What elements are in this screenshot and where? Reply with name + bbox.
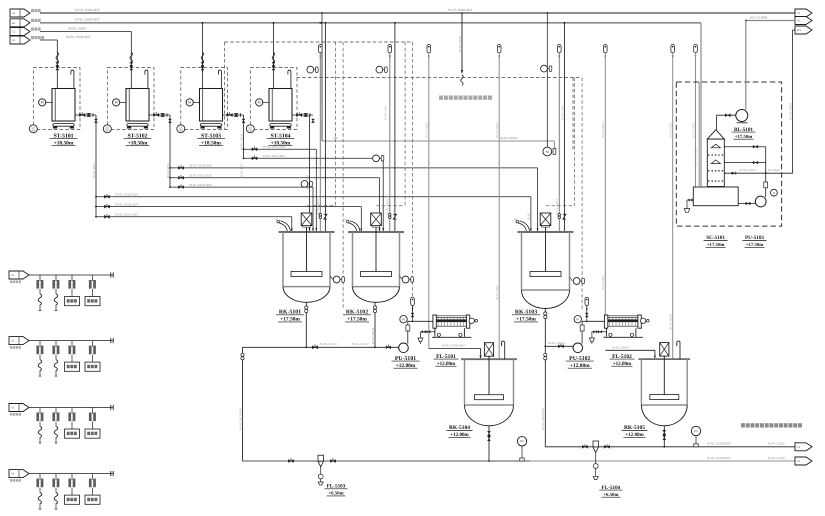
svg-text:0.5-WRE: 0.5-WRE [768, 168, 779, 172]
utility riser U4 [671, 45, 675, 53]
wire drain ST-5101 [95, 115, 97, 217]
signal dashed jog RK-5103 [574, 78, 576, 206]
pump PU-5102 [573, 343, 583, 353]
off-page connector flag IN2 [10, 19, 30, 27]
reactor outlet RK-5101 [305, 302, 307, 347]
svg-text:50-VT-1502: 50-VT-1502 [321, 105, 325, 120]
svg-text:V2: V2 [797, 20, 801, 23]
instrument bubble FI1 [307, 66, 314, 73]
svg-text:PI: PI [520, 440, 523, 444]
vent pipe ST-5102 [145, 70, 148, 88]
utility drop g2d1 [39, 341, 41, 347]
utility drop g2d2 [55, 341, 57, 347]
utility header group 1 [9, 271, 29, 279]
svg-text:50-RL-15016: 50-RL-15016 [320, 342, 337, 346]
svg-text:PI: PI [402, 317, 405, 321]
off-page connector flag IN1 [10, 9, 30, 17]
valve outlet ST-5101 [75, 114, 96, 116]
wire feed drop to ST-5102 [130, 32, 132, 89]
inline filter FL-5103 [318, 455, 324, 461]
svg-text:50-PL-15032: 50-PL-15032 [669, 313, 673, 330]
reactor RK-5105 [641, 359, 687, 426]
svg-text:40-NG-15020: 40-NG-15020 [500, 136, 518, 140]
instrument LS4 [246, 125, 254, 133]
wire solvent-header line2 [40, 22, 701, 24]
wire vent riser RK-5101 [324, 23, 326, 232]
svg-text:W1: W1 [797, 29, 801, 32]
instrument N1 [771, 189, 778, 196]
filter press FL-5102 [604, 315, 607, 328]
agitator motor RK-5101 [301, 213, 312, 226]
vent pipe ST-5101 [71, 70, 74, 88]
valve V201 [130, 62, 133, 66]
wire sump drain [687, 199, 693, 201]
svg-text:25-RL-15010-B1F: 25-RL-15010-B1F [115, 192, 138, 196]
utility riser U1 [427, 45, 431, 53]
instrument bubble FI5 [546, 13, 548, 147]
wire nitrogen line [321, 13, 323, 141]
reactor RK-5104 [465, 359, 514, 426]
svg-text:25-SW-15034: 25-SW-15034 [788, 102, 792, 120]
wire line2 drop to scrubber [700, 23, 702, 187]
wire drain ST-5104 [309, 115, 311, 232]
svg-text:152: 152 [105, 130, 110, 133]
wire RK-5105 drain [663, 426, 665, 447]
instrument LS3 [177, 125, 185, 133]
press stand FL-5102 [605, 328, 607, 337]
svg-text:151: 151 [31, 130, 36, 133]
utility riser U2 [497, 45, 501, 53]
agitator impeller RK-5103 [530, 272, 561, 277]
signal dashed jog RK-5101 [335, 42, 337, 206]
wire RK-5103 drain to bottom [544, 346, 546, 447]
scrubber sump tank [693, 187, 738, 206]
svg-text:25-SW-15027: 25-SW-15027 [739, 168, 757, 172]
svg-text:50-RL-15018: 50-RL-15018 [371, 327, 375, 344]
svg-text:25-PL-15012: 25-PL-15012 [555, 198, 559, 215]
svg-text:A1: A1 [12, 12, 16, 15]
svg-text:25-RL-15031: 25-RL-15031 [239, 133, 243, 150]
utility drop g4d3 [71, 474, 73, 480]
svg-text:M: M [41, 101, 44, 105]
utility drop g3d4 [92, 408, 94, 414]
instrument bubble FI3 [301, 181, 308, 188]
svg-text:25-RL-15011-B1F: 25-RL-15011-B1F [263, 154, 286, 158]
valve outlet ST-5102 [149, 114, 170, 116]
wire drop to reactor flange [379, 178, 381, 232]
svg-text:D1: D1 [12, 39, 16, 42]
inlet lance [348, 221, 360, 232]
agitator impeller RK-5104 [475, 395, 504, 400]
svg-text:PI: PI [576, 317, 579, 321]
valve V401 [272, 62, 275, 66]
svg-text:50-RL: 50-RL [528, 212, 531, 220]
wire FL-5101 discharge to RK-5104 [429, 348, 481, 350]
wire column to blower [716, 115, 718, 130]
off-page connector flag IN3 [10, 28, 30, 36]
utility riser U5 [694, 45, 698, 53]
utility drop g1d3 [71, 275, 73, 281]
utility drop g4d2 [55, 474, 57, 480]
inlet lance [278, 221, 290, 232]
press handwheel FL-5101 [470, 320, 476, 322]
enclosure dashed box ST-5103 [181, 68, 228, 130]
svg-text:M: M [258, 101, 261, 105]
wire branch ST-5102 b2 [169, 177, 171, 179]
utility drop g3d2 [55, 408, 57, 414]
utility header group 4 [9, 470, 29, 478]
svg-text:50-RL-15005-B1F: 50-RL-15005-B1F [66, 35, 91, 39]
off-page connector flag OUT3 [795, 26, 812, 34]
svg-text:50-VT-1503: 50-VT-1503 [560, 105, 564, 120]
valve outlet ST-5104 [292, 114, 313, 116]
wire drop to reactor flange [312, 187, 314, 232]
reactor outlet RK-5102 [374, 302, 376, 347]
wire feed drop to ST-5104 [273, 23, 275, 89]
svg-text:50-RL-1501: 50-RL-1501 [166, 163, 170, 178]
svg-text:U4: U4 [11, 473, 15, 476]
utility drop g1d4 [92, 275, 94, 281]
svg-text:50-RL-15026: 50-RL-15026 [768, 442, 785, 446]
utility stub PU-5102 [585, 297, 589, 305]
svg-text:M: M [188, 101, 191, 105]
wire feed-header line3 [40, 31, 131, 33]
off-page connector flag OUT5 [795, 457, 812, 465]
pressure gauge PG5 [691, 426, 700, 435]
wire RK-5104 drain [488, 426, 490, 461]
svg-text:B1: B1 [12, 22, 16, 25]
svg-text:M: M [115, 101, 118, 105]
wire vent riser RK-5102 [394, 23, 396, 232]
utility dip riser RK-5102 [388, 45, 392, 53]
scrubber column SC-5101 [707, 130, 724, 139]
wire suction line PU-5101 [243, 346, 399, 348]
wire branch ST-5102 b3 [169, 186, 171, 188]
wire inlet corner [530, 197, 532, 232]
pump PU-5101 [399, 343, 409, 353]
wire scrubber water supply [792, 30, 794, 174]
svg-text:50-RL-15019-B1F: 50-RL-15019-B1F [238, 407, 242, 430]
dip valves RK-5103 [558, 213, 561, 216]
svg-text:25-RL-15012-B1F: 25-RL-15012-B1F [115, 213, 138, 217]
svg-text:50-RL-15026(B1F): 50-RL-15026(B1F) [707, 442, 731, 446]
off-page connector flag OUT2 [795, 17, 812, 25]
svg-text:50-RL-15024: 50-RL-15024 [612, 345, 629, 349]
svg-text:25-PL-15011: 25-PL-15011 [386, 199, 390, 215]
svg-text:P2: P2 [797, 460, 801, 463]
pump PU-5103 [755, 196, 766, 207]
reactor RK-5102 [353, 232, 400, 302]
wire drain ST-5103 [243, 115, 245, 158]
svg-text:50-VT-15035: 50-VT-15035 [458, 35, 462, 52]
signal dashed jog RK-5102 [404, 42, 406, 206]
reactor RK-5101 [283, 232, 330, 302]
svg-text:50-RL-15022-B1F: 50-RL-15022-B1F [541, 407, 545, 430]
agitator motor RK-5105 [660, 343, 669, 357]
instrument PG PU-5102 [574, 316, 581, 323]
svg-text:50-SL-15003-B1F: 50-SL-15003-B1F [75, 18, 100, 22]
agitator motor RK-5102 [371, 213, 382, 226]
svg-text:U2: U2 [11, 340, 15, 343]
vent pipe RK-5104 [502, 341, 505, 359]
svg-text:25-SW-15033: 25-SW-15033 [693, 147, 697, 165]
press handwheel FL-5102 [641, 320, 647, 322]
wire feed drop to ST-5103 [202, 23, 204, 89]
svg-text:25-RL-15011-B1F: 25-RL-15011-B1F [189, 174, 212, 178]
wire branch ST-5101 b2 [95, 206, 97, 208]
svg-text:U3: U3 [11, 407, 15, 410]
instrument LS1 [29, 125, 37, 133]
instrument M3 [193, 101, 199, 103]
svg-text:25-RL-15011-B1F: 25-RL-15011-B1F [115, 202, 138, 206]
tank ST-5103 [200, 89, 223, 122]
agitator motor RK-5103 [540, 213, 551, 226]
utility drop g3d3 [71, 408, 73, 414]
svg-text:50-RL-15025(B1F): 50-RL-15025(B1F) [707, 456, 731, 460]
svg-text:25-PL-1503: 25-PL-1503 [495, 285, 499, 300]
vent pipe RK-5105 [677, 341, 680, 359]
note condenser (CJK) [439, 96, 443, 100]
svg-text:25-PL-15011: 25-PL-15011 [495, 122, 499, 138]
press drain FL-5102 [605, 328, 607, 332]
utility drop g3d1 [39, 408, 41, 414]
wire branch ST-5103 b2 [243, 157, 245, 159]
utility header group 2 [9, 337, 29, 345]
svg-text:50-RL-15025: 50-RL-15025 [768, 456, 785, 460]
instrument LS2 [103, 125, 111, 133]
svg-text:50-FL-15017: 50-FL-15017 [352, 342, 369, 346]
svg-text:50-RL-15023-B1F: 50-RL-15023-B1F [442, 344, 465, 348]
svg-text:154: 154 [248, 130, 253, 133]
signal dashed side RK-5103 [581, 78, 583, 311]
utility drop g2d3 [71, 341, 73, 347]
vent pipe ST-5104 [288, 70, 291, 88]
wire inlet corner [360, 207, 362, 232]
instrument bubble FI6 [541, 65, 548, 72]
svg-text:25-RL-15010-B1F: 25-RL-15010-B1F [263, 145, 286, 149]
svg-text:50-VT-15001-B1F: 50-VT-15001-B1F [75, 8, 100, 12]
signal dashed side RK-5102 [412, 42, 414, 310]
dip valves RK-5101 [319, 213, 322, 216]
wire drain ST-5102 [169, 115, 171, 187]
agitator impeller RK-5102 [361, 272, 392, 277]
enclosure vendor dashed box [676, 82, 781, 226]
svg-text:25-PL-15013: 25-PL-15013 [669, 121, 673, 138]
svg-text:25-PL-15010: 25-PL-15010 [316, 198, 320, 215]
svg-text:M: M [546, 150, 549, 154]
svg-text:50-RL-1501: 50-RL-1501 [239, 163, 243, 178]
wire drop to reactor flange [537, 168, 539, 232]
reactor RK-5103 [522, 232, 570, 309]
svg-text:N: N [773, 191, 775, 195]
svg-text:25-RL-15010-B1F: 25-RL-15010-B1F [189, 164, 212, 168]
svg-text:50-RL-1501: 50-RL-1501 [92, 163, 96, 178]
svg-text:V1: V1 [797, 12, 801, 15]
wire makeup water line [724, 172, 792, 174]
svg-text:50-VT-15006: 50-VT-15006 [750, 15, 768, 19]
wire branch ST-5102 b1 [169, 167, 171, 169]
instrument M4 [263, 101, 269, 103]
wire discharge PU-5101 [407, 321, 409, 343]
wire FL-5102 discharge to RK-5105 [605, 349, 655, 351]
valve V101 [56, 62, 59, 66]
utility dip riser RK-5103 [558, 45, 562, 53]
filter press FL-5101 [433, 315, 436, 328]
svg-text:U1: U1 [11, 274, 15, 277]
utility header group 3 [9, 404, 29, 412]
utility stub PU-5101 [411, 297, 415, 305]
wire vent riser RK-5103 [563, 23, 565, 232]
wire bottom product line upper [545, 446, 795, 448]
utility drop g2d4 [92, 341, 94, 347]
valve outlet ST-5103 [223, 114, 244, 116]
instrument bubble TE1 [330, 276, 333, 280]
wire riser into sump [698, 82, 700, 187]
inlet lance [517, 221, 529, 232]
svg-text:C1: C1 [12, 31, 16, 34]
valve V301 [201, 62, 204, 66]
wire drain leg to bottom [242, 347, 244, 461]
wire to condenser [461, 13, 463, 70]
utility drop g1d1 [39, 275, 41, 281]
enclosure dashed box ST-5101 [33, 68, 80, 130]
svg-text:25-RL-15012-B1F: 25-RL-15012-B1F [189, 183, 212, 187]
utility riser U3 [604, 45, 608, 53]
instrument PG PU-5101 [400, 316, 407, 323]
svg-text:PI: PI [694, 429, 697, 433]
svg-text:153: 153 [179, 130, 184, 133]
press drain FL-5101 [434, 328, 436, 332]
svg-text:25-PL-15014: 25-PL-15014 [691, 121, 695, 138]
wire feed-header line4 [40, 39, 57, 41]
wire branch ST-5101 b1 [95, 196, 97, 198]
utility drop g4d1 [39, 474, 41, 480]
pressure gauge PG4 [517, 437, 526, 446]
wire branch ST-5101 b3 [95, 216, 97, 218]
svg-text:50-VT-1501: 50-VT-1501 [384, 105, 388, 120]
off-page connector flag OUT4 [795, 443, 812, 451]
wire discharge PU-5102 [581, 321, 583, 343]
utility drop g1d2 [55, 275, 57, 281]
agitator impeller RK-5105 [650, 395, 679, 400]
agitator motor RK-5104 [484, 343, 493, 357]
svg-text:25-PL-15010: 25-PL-15010 [425, 121, 429, 138]
instrument bubble TE3 [570, 277, 573, 281]
tank ST-5102 [126, 89, 149, 122]
svg-text:P1: P1 [797, 446, 801, 449]
enclosure dashed box ST-5104 [250, 68, 297, 130]
instrument M2 [120, 101, 126, 103]
instrument bubble TE2 [400, 276, 403, 280]
vent pipe ST-5103 [218, 70, 221, 88]
dip valves RK-5102 [389, 213, 392, 216]
instrument M1 [46, 101, 52, 103]
reactor outlet RK-5103 [544, 309, 546, 347]
enclosure dashed boundary mid [297, 77, 582, 79]
tank ST-5104 [269, 89, 292, 122]
svg-text:50-RL-15004: 50-RL-15004 [68, 27, 86, 31]
blower BL-5101 [736, 110, 748, 122]
note vendor supply (CJK) [741, 423, 745, 427]
wire bottom product line lower [243, 460, 531, 462]
wire drop to reactor flange [315, 149, 317, 232]
wire spray nozzles feed [724, 146, 765, 148]
enclosure dashed boundary top [225, 41, 411, 43]
instrument bubble FI2 [376, 66, 383, 73]
svg-text:50-RL-15021: 50-RL-15021 [548, 341, 565, 345]
tank ST-5101 [52, 89, 75, 122]
agitator impeller RK-5101 [291, 272, 322, 277]
wire suction line PU-5102 [545, 345, 573, 347]
wire inlet corner [291, 217, 293, 232]
wire drop to reactor flange [382, 158, 384, 232]
svg-text:25-PL-1504: 25-PL-1504 [601, 275, 605, 290]
wire feed drop to ST-5101 [56, 40, 58, 89]
utility dip riser RK-5101 [319, 45, 323, 53]
press stand FL-5101 [434, 328, 436, 337]
svg-text:50-VT-15002-B1F: 50-VT-15002-B1F [448, 8, 473, 12]
wire branch ST-5103 b1 [243, 148, 245, 150]
inline filter FL-5104 [593, 441, 599, 447]
enclosure dashed box ST-5102 [107, 68, 154, 130]
node vapor-header line1 [40, 12, 795, 14]
instrument bubble FI4 [373, 155, 380, 162]
off-page connector flag IN4 [10, 36, 30, 44]
utility drop g4d4 [92, 474, 94, 480]
svg-text:25-PL-15012: 25-PL-15012 [601, 121, 605, 138]
off-page connector flag OUT1 [795, 9, 812, 17]
signal dashed side RK-5101 [342, 42, 344, 310]
